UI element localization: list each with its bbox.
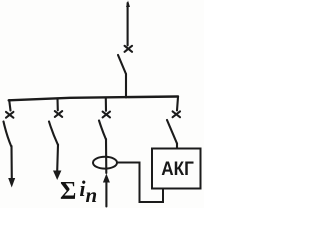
switch blade F4 <box>167 120 177 144</box>
label sum i_n <box>60 176 97 208</box>
switch blade F1 <box>4 122 12 147</box>
incoming arrowhead (up) <box>126 1 130 8</box>
feeder 1 wire <box>10 146 12 179</box>
feeder 4 stub <box>177 97 178 110</box>
feeder 2 stub <box>56 99 58 111</box>
CT ellipse <box>93 157 117 169</box>
switch blade F2 <box>49 122 58 146</box>
breaker X (incoming) <box>125 46 132 52</box>
label AKG <box>153 158 202 181</box>
AKG box <box>152 149 201 189</box>
incoming supply line <box>127 3 129 45</box>
breaker X2 <box>55 111 62 117</box>
feeder 1 stub <box>9 100 10 111</box>
feeder 3 wire through CT <box>105 139 107 173</box>
wire into AKG box <box>176 144 178 149</box>
feeder 1 arrowhead (down) <box>8 178 15 188</box>
breaker X1 <box>6 112 13 118</box>
feeder 2 arrowhead (down) <box>53 171 61 181</box>
switch blade (incoming) <box>118 55 126 74</box>
feeder 3 up arrowhead <box>103 174 110 183</box>
breaker X3 <box>103 112 110 118</box>
wire riser to bus <box>125 74 127 98</box>
feeder 2 wire <box>56 145 59 172</box>
CT secondary wire to AKG <box>117 163 163 203</box>
switch blade F3 <box>99 121 106 140</box>
feeder 3 wire below arrow <box>105 183 107 207</box>
bus bar <box>9 97 178 101</box>
feeder 3 stub <box>105 98 107 111</box>
breaker X4 <box>173 111 180 117</box>
